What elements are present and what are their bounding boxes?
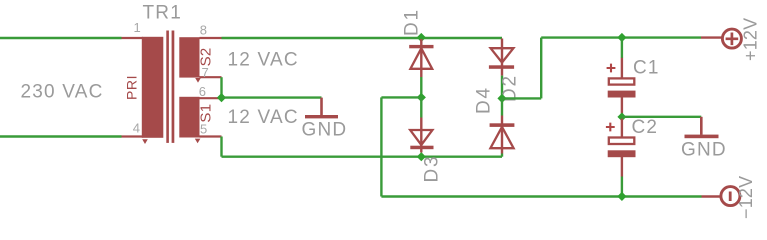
gnd stub [320, 98, 323, 116]
C1 top green lead [621, 39, 623, 58]
D4 lead [501, 116, 503, 154]
svg-text:TR1: TR1 [143, 3, 183, 24]
wire 230VAC top [0, 37, 122, 39]
+12V circle [722, 29, 741, 48]
svg-text:S1: S1 [198, 104, 215, 123]
wire lower AC rail [222, 155, 503, 157]
C2 bottom lead [621, 157, 623, 177]
D3 triangle [410, 130, 432, 145]
ground GND left [302, 98, 348, 141]
svg-text:D4: D4 [474, 86, 495, 114]
svg-text:C1: C1 [633, 58, 660, 79]
wire minus node left [381, 96, 421, 98]
D2 lower green lead [501, 76, 503, 99]
svg-text:D3: D3 [422, 155, 443, 183]
wire minus node down to D3 [420, 97, 422, 117]
pin 8 line [200, 37, 222, 39]
svg-text:4: 4 [133, 120, 140, 135]
core line 2 [172, 31, 175, 143]
svg-text:D1: D1 [402, 8, 423, 36]
wire C2 to minus rail [621, 177, 623, 197]
svg-text:−12V: −12V [736, 176, 756, 219]
-12V minus bar [729, 192, 732, 202]
wire plus route up [540, 38, 542, 99]
C2 plus sign [606, 123, 615, 132]
wire plus node right [502, 97, 541, 99]
capacitor C2 [606, 117, 658, 177]
wire D1 anode to minus node [420, 77, 422, 97]
gnd stub [700, 117, 703, 135]
pin 4 arrow [142, 139, 148, 144]
svg-text:PRI: PRI [123, 75, 139, 100]
gnd bar [305, 115, 338, 118]
D1 triangle [410, 48, 432, 69]
wire D4 anode to lower rail [501, 154, 503, 157]
D2 lead [501, 39, 503, 76]
diode D1 [402, 8, 434, 77]
wire pin7 down to center tap [220, 77, 222, 97]
+12V pin line [701, 36, 723, 38]
+12V plus [726, 33, 739, 46]
D3 lead [420, 118, 422, 153]
transformer TR1 [122, 3, 222, 145]
pin 6 line [200, 97, 220, 99]
svg-text:5: 5 [200, 122, 207, 137]
svg-text:230 VAC: 230 VAC [21, 81, 104, 102]
svg-text:C2: C2 [632, 117, 659, 138]
C1 bottom lead [621, 97, 623, 119]
svg-text:12 VAC: 12 VAC [228, 107, 299, 128]
svg-text:8: 8 [200, 23, 207, 38]
junction C1 top [617, 33, 626, 42]
wire pin8 to D2 top [222, 37, 503, 39]
C1 top plate [609, 78, 635, 84]
C2 bottom plate [608, 150, 636, 157]
wire mid junction to right GND [622, 116, 701, 118]
D4 cathode bar [490, 123, 515, 127]
svg-text:7: 7 [202, 65, 209, 80]
diode D2 [489, 39, 521, 103]
svg-text:GND: GND [302, 119, 348, 140]
gnd bar [685, 135, 719, 139]
primary winding rectangle [142, 37, 164, 138]
svg-text:6: 6 [199, 84, 206, 99]
C1 top lead [621, 58, 623, 78]
wire minus rail bottom [381, 195, 701, 197]
C2 top lead [621, 119, 623, 137]
-12V circle [721, 187, 740, 206]
diode D3 [410, 118, 442, 183]
capacitor C1 [607, 39, 660, 119]
D2 cathode bar [489, 65, 514, 69]
D3 cathode bar [410, 146, 433, 150]
junction C2 bottom [617, 192, 626, 201]
wire plus rail top [541, 36, 701, 38]
secondary winding S1 rectangle [179, 97, 199, 138]
pin 5 arrow [195, 139, 201, 144]
svg-text:S2: S2 [198, 47, 215, 66]
svg-text:12 VAC: 12 VAC [228, 49, 299, 70]
supply +12V [701, 18, 760, 61]
junction D1 top [417, 33, 426, 42]
junction D3 bottom [417, 152, 426, 161]
D1 cathode bar [409, 45, 433, 48]
diode D4 [474, 86, 515, 153]
ground GND right [681, 117, 727, 161]
wire 230VAC bottom [0, 135, 122, 137]
pin 5 line [200, 135, 222, 137]
D2 triangle [491, 48, 514, 62]
wire center tap to GND [222, 96, 322, 98]
pin 7 line [200, 76, 222, 78]
-12V pin line [702, 195, 722, 197]
junction plus node [497, 94, 506, 103]
supply -12V [702, 176, 756, 219]
pin 7 arrow [195, 78, 201, 83]
pin 1 line [122, 37, 144, 39]
core line 1 [166, 31, 169, 143]
svg-text:GND: GND [681, 140, 727, 161]
D4 triangle [490, 127, 513, 148]
wire pin5 down to lower rail [220, 137, 222, 157]
junction mid output [617, 113, 626, 122]
C1 bottom plate [608, 91, 636, 98]
C2 top plate [609, 138, 635, 145]
svg-text:+12V: +12V [740, 18, 760, 61]
junction center tap [217, 93, 226, 102]
wire minus node down [380, 97, 382, 196]
C1 plus sign [607, 64, 616, 73]
secondary winding S2 rectangle [179, 37, 199, 77]
pin 4 line [122, 135, 144, 137]
wire plus node down to D4 [501, 98, 503, 115]
junction minus node [417, 93, 426, 102]
svg-text:1: 1 [134, 20, 141, 35]
D1 lead [420, 39, 422, 77]
